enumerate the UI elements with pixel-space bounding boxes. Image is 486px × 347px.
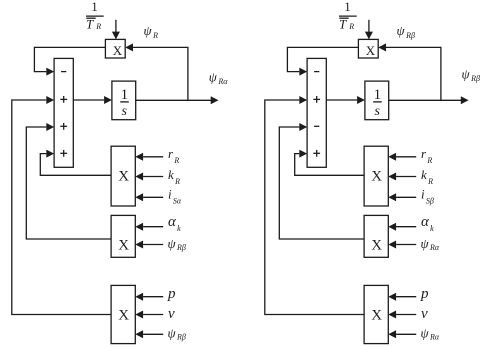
summer sign - (row 1): [314, 71, 319, 73]
summer sign - (row 1): [61, 71, 66, 73]
wire: ψ_Rβ into X4L: [135, 330, 163, 338]
wire: r_R into X2R: [388, 153, 416, 161]
svg-text:αk: αk: [421, 214, 434, 233]
summer sign + (row 4): [313, 150, 320, 157]
svg-text:iSα: iSα: [168, 187, 182, 206]
svg-text:ψRβ: ψRβ: [397, 23, 415, 40]
svg-text:p: p: [420, 286, 429, 302]
svg-text:X: X: [366, 43, 376, 58]
wire: ψ_Rα into X3R: [388, 241, 416, 249]
wire: X2R output to summer row-4 input: [295, 150, 364, 176]
svg-text:αk: αk: [168, 214, 181, 233]
wire: X3R output to summer row-3 input: [279, 123, 364, 239]
svg-text:1: 1: [374, 87, 382, 103]
svg-text:1: 1: [121, 87, 129, 103]
svg-text:R: R: [95, 22, 101, 31]
summer SR: [307, 58, 326, 167]
wire: k_R into X2R: [388, 173, 416, 181]
summer sign + (row 4): [60, 150, 67, 157]
wire: ν into X4L: [135, 311, 163, 319]
svg-text:p: p: [167, 286, 176, 302]
svg-text:X: X: [118, 169, 129, 185]
multiplier X1R (top): [358, 39, 378, 58]
summer SL: [54, 58, 73, 167]
svg-text:X: X: [113, 43, 123, 58]
wire: X2L output to summer row-4 input: [40, 150, 111, 176]
multiplier X2L (r_R k_R i_Sα): [111, 146, 135, 206]
wire: ν into X4R: [388, 311, 416, 319]
multiplier X4L (p ν ψ_Rβ): [111, 285, 135, 343]
integrator 1/s (R): [365, 81, 389, 120]
wire: 1/T_R into top multiplier (L): [112, 20, 120, 40]
wire: ψ_Rα feedback into X1L: [125, 43, 188, 100]
wire: r_R into X2L: [135, 153, 163, 161]
wire: p into X4L: [135, 293, 163, 301]
multiplier X2R (r_R k_R i_Sβ): [364, 146, 388, 206]
wire: α_k into X3L: [135, 223, 163, 231]
svg-text:R: R: [348, 22, 354, 31]
wire: ψ_Rβ into X3L: [135, 241, 163, 249]
svg-text:ψRα: ψRα: [209, 70, 228, 87]
svg-text:ν: ν: [421, 306, 428, 322]
multiplier X4R (p ν ψ_Rα): [364, 285, 388, 343]
wire: i_Sβ into X2R: [388, 193, 416, 201]
svg-text:X: X: [371, 308, 382, 324]
svg-text:ψRβ: ψRβ: [168, 236, 186, 252]
summer sign + (row 2): [313, 96, 320, 103]
svg-text:ψRβ: ψRβ: [462, 67, 480, 84]
wire: ψ_Rα into X4R: [388, 330, 416, 338]
svg-text:X: X: [118, 238, 129, 254]
svg-text:X: X: [371, 169, 382, 185]
wire: ψ_Rβ feedback into X1R: [378, 43, 441, 100]
svg-text:1: 1: [344, 0, 351, 14]
svg-text:kR: kR: [168, 167, 180, 186]
svg-text:kR: kR: [421, 167, 433, 186]
svg-text:T: T: [339, 17, 347, 32]
svg-text:s: s: [121, 104, 127, 119]
multiplier X3L (α_k ψ_Rβ): [111, 215, 135, 257]
wire: α_k into X3R: [388, 223, 416, 231]
svg-text:ν: ν: [168, 306, 175, 322]
svg-text:rR: rR: [168, 146, 179, 165]
multiplier X3R (α_k ψ_Rα): [364, 215, 388, 257]
summer sign - (row 3): [314, 125, 319, 127]
wire: 1/T_R into top multiplier (R): [365, 20, 373, 40]
summer sign + (row 3): [60, 123, 67, 130]
gain label 1/T_R (R diagram): [339, 0, 357, 32]
wire: integrator output ψ_Rα: [136, 96, 219, 104]
summer sign + (row 2): [60, 96, 67, 103]
wire: X4L output to summer row-2 input: [12, 96, 111, 315]
wire: integrator output ψ_Rβ: [389, 96, 469, 104]
svg-text:T: T: [86, 17, 94, 32]
svg-text:X: X: [371, 238, 382, 254]
wire: i_Sα into X2L: [135, 193, 163, 201]
integrator 1/s (L): [112, 81, 136, 120]
svg-text:rR: rR: [421, 146, 432, 165]
svg-text:s: s: [374, 104, 380, 119]
wire: X1R output to summer minus input: [287, 47, 358, 75]
wire: X4R output to summer row-2 input: [265, 96, 364, 315]
svg-text:1: 1: [91, 0, 98, 14]
svg-text:ψRα: ψRα: [421, 236, 440, 252]
wire: X3L output to summer row-3 input: [26, 123, 111, 239]
wire: summer output to integrator: [326, 96, 365, 104]
wire: p into X4R: [388, 293, 416, 301]
multiplier X1L (top): [105, 39, 125, 58]
wire: k_R into X2L: [135, 173, 163, 181]
wire: summer output to integrator: [73, 96, 112, 104]
gain label 1/T_R (L diagram): [86, 0, 104, 32]
svg-text:ψRβ: ψRβ: [168, 325, 186, 341]
svg-text:X: X: [118, 308, 129, 324]
svg-text:ψR: ψR: [144, 23, 159, 40]
svg-text:ψRα: ψRα: [421, 325, 440, 341]
svg-text:iSβ: iSβ: [421, 187, 434, 206]
wire: X1L output to summer minus input: [34, 47, 105, 75]
